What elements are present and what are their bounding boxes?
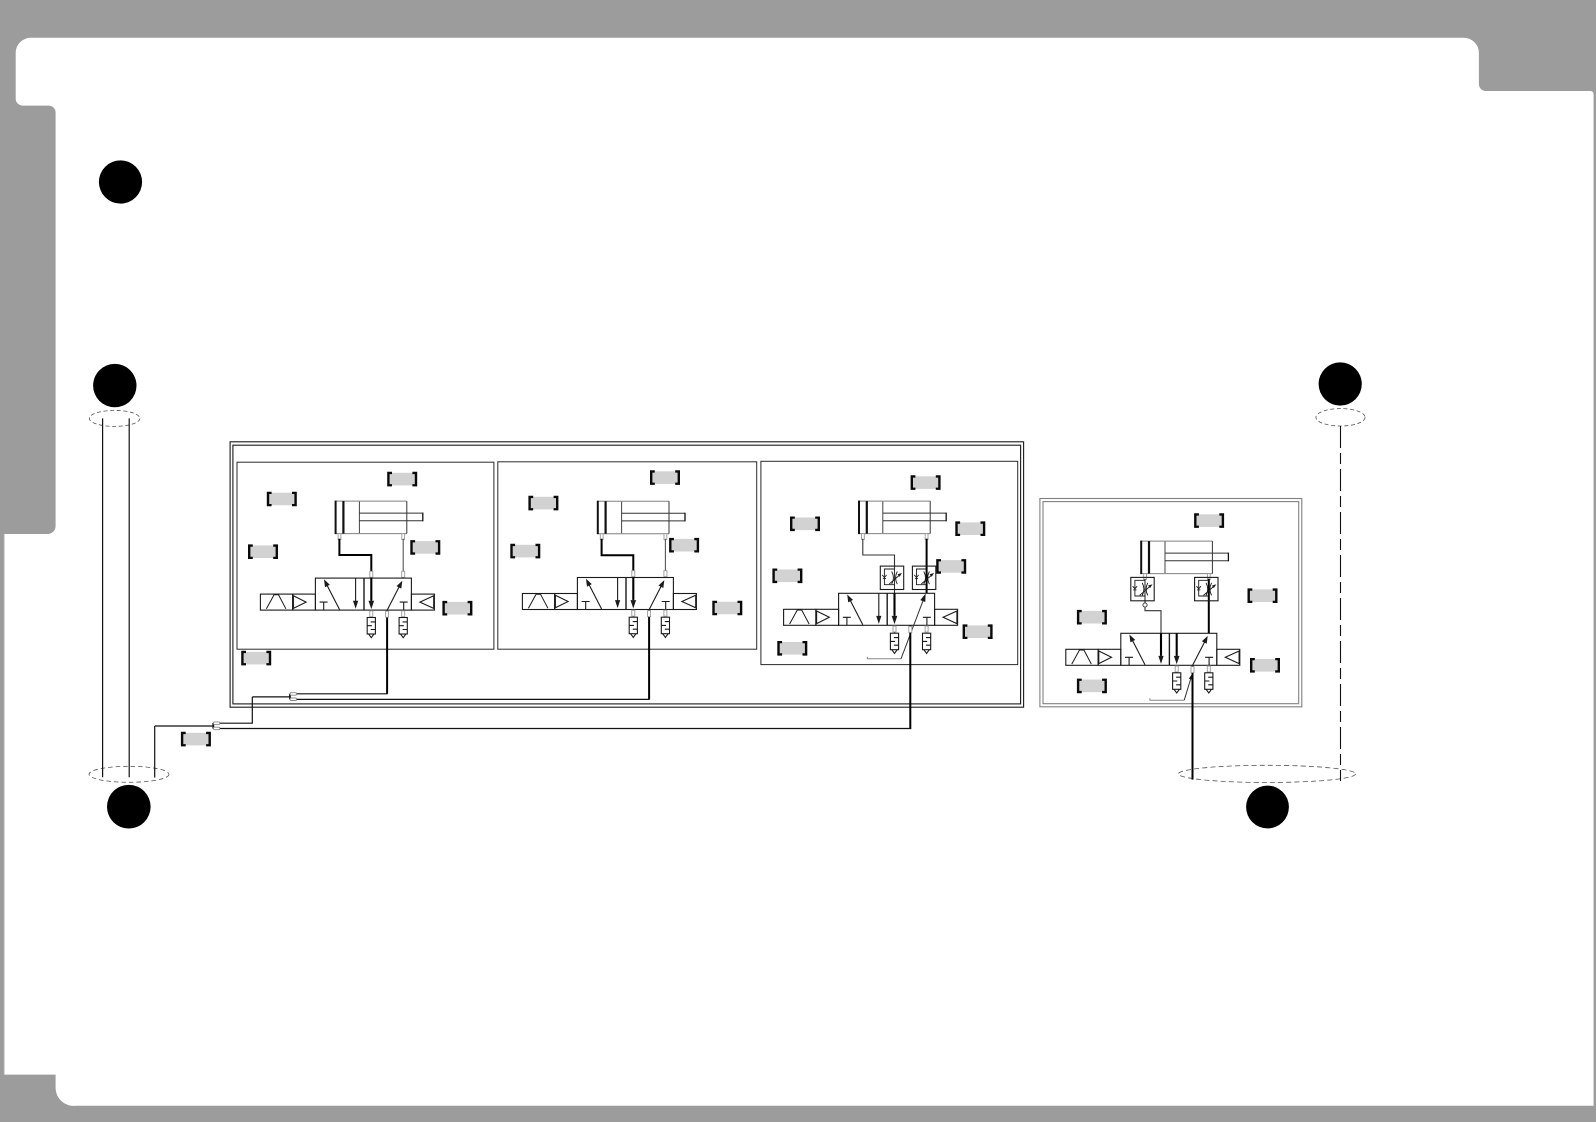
cylinder A [336, 501, 423, 540]
dashed ellipse bottom-left [89, 766, 169, 782]
wire lower connector upper prong [220, 722, 253, 724]
wire lower connector lower prong C [220, 728, 912, 730]
wire C cylinder-right to valve port [926, 539, 928, 594]
valve A flow diagonal right [387, 581, 402, 610]
flow control D1 [1131, 577, 1154, 600]
stub B below valve port5 [664, 610, 667, 616]
flow control C1 [880, 566, 903, 589]
muffler D2 [1205, 673, 1213, 693]
stub A below valve port3 [370, 611, 373, 617]
wire A cylinder-left to valve port [339, 539, 371, 578]
valve B flow diagonal right [649, 580, 664, 609]
wire supply rail upper prong A [296, 693, 387, 695]
muffler B1 [629, 617, 637, 637]
stub D on drop [1191, 667, 1194, 673]
cylinder B [598, 501, 685, 540]
inner box B [498, 462, 757, 649]
wire A port3 to muffler [370, 610, 372, 617]
wire D cylinder-left through flow control [1145, 579, 1161, 634]
port marker circle D [1143, 603, 1147, 607]
connector upper [290, 693, 296, 701]
valve B active stem overlay [632, 578, 634, 600]
stub A on supply drop [386, 611, 389, 617]
label D left mid [1077, 610, 1107, 625]
wire riser drop left [154, 726, 156, 778]
valve C [784, 593, 958, 625]
indicator arrowhead D [1189, 674, 1193, 680]
indicator arrowhead C [920, 594, 925, 603]
wire B cylinder-left to valve port [602, 539, 634, 578]
indicator diagonal D [1184, 675, 1192, 700]
dashed ellipse bottom-right [1178, 765, 1355, 782]
standalone box D (double gray border) [1040, 499, 1302, 707]
wire into upper connector [252, 696, 290, 698]
muffler B2 [661, 617, 669, 637]
label A left mid [248, 544, 278, 559]
muffler A2 [399, 618, 407, 638]
outer enclosure box (double border) [230, 442, 1024, 707]
wire C supply drop [909, 626, 911, 729]
stub D below valve port3 [1175, 666, 1178, 672]
label C right low [963, 624, 993, 639]
riser tube left line a [102, 418, 104, 777]
label B left mid [510, 544, 540, 559]
label C top [911, 475, 941, 490]
marker circle 5 [1246, 786, 1289, 829]
wire from riser into lower connector [155, 725, 214, 727]
label C left mid [772, 569, 802, 584]
label C right upper [955, 521, 985, 536]
label B right mid [669, 538, 699, 553]
valve A active stem overlay [370, 578, 372, 600]
label B top [650, 470, 680, 485]
dashed ellipse top-left [89, 410, 140, 426]
label D right upper [1248, 588, 1278, 603]
stub C on supply drop [909, 626, 912, 632]
label A right mid [410, 540, 440, 555]
dash-dot drop line right [1340, 426, 1342, 781]
wire B port3 to muffler [632, 610, 634, 618]
flow control D2 [1195, 577, 1218, 600]
valve D [1066, 633, 1240, 665]
label A below box [241, 651, 271, 666]
marker circle 4 [1319, 362, 1362, 405]
indicator line below valve D [1150, 698, 1184, 700]
label A right low [442, 601, 472, 616]
wire A supply drop [386, 611, 388, 694]
stub A below valve port5 [402, 611, 405, 617]
connector lower [213, 722, 219, 730]
wire D port3 to muffler [1176, 665, 1178, 673]
wire B supply drop [648, 610, 650, 699]
left page edge line [3, 534, 5, 1075]
wire z-link vertical [251, 697, 253, 723]
stub B on supply drop [648, 611, 651, 617]
valve D active stem overlay [1161, 633, 1177, 655]
muffler D1 [1173, 673, 1181, 693]
stub C below valve port3 [893, 626, 896, 632]
valve A [260, 578, 434, 610]
valve C active stem overlay [893, 593, 895, 615]
label D right low [1250, 658, 1280, 673]
wire C cylinder-left to flow control [863, 539, 895, 594]
stub B valve top left [632, 571, 635, 577]
marker circle 2 [93, 364, 136, 407]
label D top [1194, 513, 1224, 528]
flow control C2 [912, 566, 935, 589]
indicator line below valve C [867, 657, 901, 659]
cylinder C [859, 501, 946, 540]
muffler C1 [890, 633, 898, 653]
wire D cylinder-right to valve port [1208, 579, 1210, 634]
valve B [522, 578, 696, 610]
label C below valve [777, 641, 807, 656]
inner box C [761, 461, 1018, 664]
stub B valve top right [664, 571, 667, 577]
stub A valve top right [402, 571, 405, 577]
cylinder D [1141, 541, 1228, 580]
wire B cylinder-right to valve port [664, 539, 666, 578]
stub A valve top left [370, 571, 373, 577]
wire A cylinder-right to valve port [402, 539, 404, 578]
dashed ellipse top-right [1316, 409, 1365, 426]
wire supply rail lower prong B [296, 698, 649, 700]
label C right mid [936, 559, 966, 574]
marker circle 3 [107, 785, 151, 829]
stub B below valve port3 [632, 610, 635, 616]
stub D below valve port5 [1207, 666, 1210, 672]
marker circle 1 [99, 160, 142, 203]
muffler A1 [367, 618, 375, 638]
inner box A [237, 462, 494, 649]
label C left upper [790, 517, 820, 532]
label A left upper [267, 492, 297, 507]
label B left upper [528, 496, 558, 511]
label supply [181, 732, 211, 747]
indicator diagonal C [901, 596, 925, 659]
wire D drop to manifold [1192, 666, 1194, 780]
label B right low [712, 601, 742, 616]
wire C port3 to muffler [894, 625, 896, 633]
stub C below valve port5 [925, 626, 928, 632]
valve D flow diagonal right [1193, 636, 1208, 665]
label A top [387, 472, 417, 487]
label D below valve [1077, 679, 1107, 694]
riser tube left line b [128, 418, 130, 777]
muffler C2 [923, 633, 931, 653]
